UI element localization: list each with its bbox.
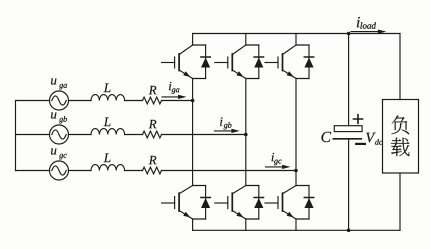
resistor R (phase b) — [143, 120, 162, 138]
IGBT Q5 with anti-parallel diode (upper, leg 3) — [265, 45, 314, 79]
wire: capacitor to bottom bus — [348, 139, 350, 231]
current arrow i_ga — [162, 82, 187, 99]
resistor R (phase a) — [143, 86, 162, 104]
polarity + — [354, 115, 363, 124]
wire: inductor to resistor — [125, 100, 143, 102]
wire: inductor to resistor — [125, 170, 143, 172]
load box (resistive load) — [383, 100, 419, 174]
current arrow i_gb — [215, 117, 240, 133]
IGBT Q6 with anti-parallel diode (lower, leg 2) — [215, 186, 264, 220]
wire: left bus to source u_gc — [16, 170, 50, 172]
resistor R (phase c) — [143, 156, 162, 174]
wire: inductor to resistor — [125, 134, 143, 136]
wire: top bus down to load — [399, 34, 401, 100]
inductor L (phase b) — [91, 117, 125, 134]
capacitor C bottom plate — [333, 138, 361, 140]
inductor L (phase a) — [91, 83, 125, 100]
left neutral bus — [15, 101, 17, 171]
node: phase b junction — [244, 133, 248, 137]
node: capacitor top junction — [347, 32, 351, 36]
capacitor C top plate (box) — [321, 115, 364, 144]
IGBT Q2 with anti-parallel diode (lower, leg 3) — [265, 186, 314, 220]
wire: bridge leg 2 — [245, 34, 247, 231]
wire: left bus to source u_gb — [16, 134, 50, 136]
wire: source to inductor — [69, 170, 92, 172]
AC source u_gb — [50, 113, 69, 144]
top DC bus (positive rail) — [193, 33, 400, 35]
wire: source to inductor — [69, 134, 92, 136]
label zai2: 载 — [391, 138, 410, 156]
node: phase c junction — [294, 169, 298, 173]
label V_dc — [366, 133, 382, 145]
IGBT Q4 with anti-parallel diode (lower, leg 1) — [162, 186, 211, 220]
wire: top bus to capacitor — [348, 34, 350, 126]
current arrow i_load — [351, 17, 386, 34]
AC source u_gc — [50, 149, 69, 180]
wire: resistor to bridge leg — [162, 134, 246, 136]
node: phase a junction — [191, 99, 195, 103]
inductor L (phase c) — [91, 153, 125, 170]
wire: left bus to source u_ga — [16, 100, 50, 102]
current arrow i_gc — [266, 153, 291, 169]
polarity - — [356, 143, 365, 145]
AC source u_ga — [50, 79, 69, 110]
IGBT Q3 with anti-parallel diode (upper, leg 2) — [215, 45, 264, 79]
wire: load to bottom bus — [399, 173, 401, 230]
bottom DC bus (negative rail) — [193, 229, 400, 231]
wire: source to inductor — [69, 100, 92, 102]
wire: bridge leg 1 — [192, 34, 194, 231]
IGBT Q1 with anti-parallel diode (upper, leg 1) — [162, 45, 211, 79]
wire: bridge leg 3 — [295, 34, 297, 231]
wire: resistor to bridge leg — [162, 100, 193, 102]
wire: resistor to bridge leg — [162, 170, 297, 172]
node: capacitor bottom junction — [347, 229, 351, 233]
label zai1: 负 — [391, 116, 409, 135]
label C — [321, 132, 331, 142]
